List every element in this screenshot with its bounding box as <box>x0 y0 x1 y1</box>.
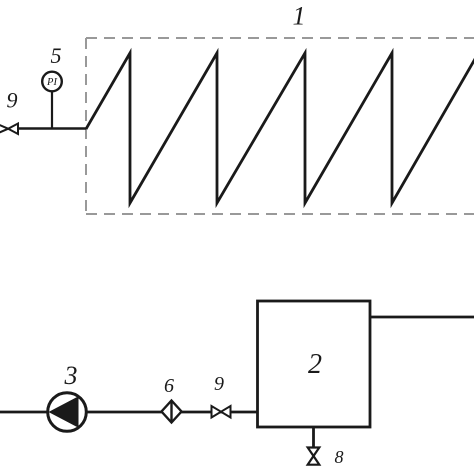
svg-text:8: 8 <box>335 447 344 467</box>
heating coil (sawtooth) <box>86 52 474 203</box>
valve 9 (bottom) <box>212 406 231 418</box>
pump 3 <box>48 393 87 432</box>
svg-text:9: 9 <box>7 88 18 113</box>
heater enclosure (dashed boundary) 1 <box>86 38 474 214</box>
valve 8 (drain) <box>308 448 320 465</box>
wire: tank outlet pipe <box>370 316 474 319</box>
valve 9 (top left, cut at edge) <box>0 124 18 135</box>
wire: bottom main pipe <box>0 411 257 414</box>
wire: gauge stem <box>51 90 53 129</box>
svg-text:PI: PI <box>46 77 57 88</box>
svg-text:5: 5 <box>51 43 62 68</box>
svg-text:9: 9 <box>214 373 224 395</box>
tank 2 <box>258 301 371 427</box>
wire: tank drain stem <box>312 427 315 448</box>
filter 6 <box>162 401 182 423</box>
wire: inlet pipe to coil <box>17 127 86 129</box>
svg-text:3: 3 <box>64 361 78 390</box>
svg-text:1: 1 <box>293 2 306 31</box>
svg-text:2: 2 <box>308 349 322 380</box>
pressure gauge PI 5 <box>42 72 62 92</box>
svg-text:6: 6 <box>164 375 174 397</box>
